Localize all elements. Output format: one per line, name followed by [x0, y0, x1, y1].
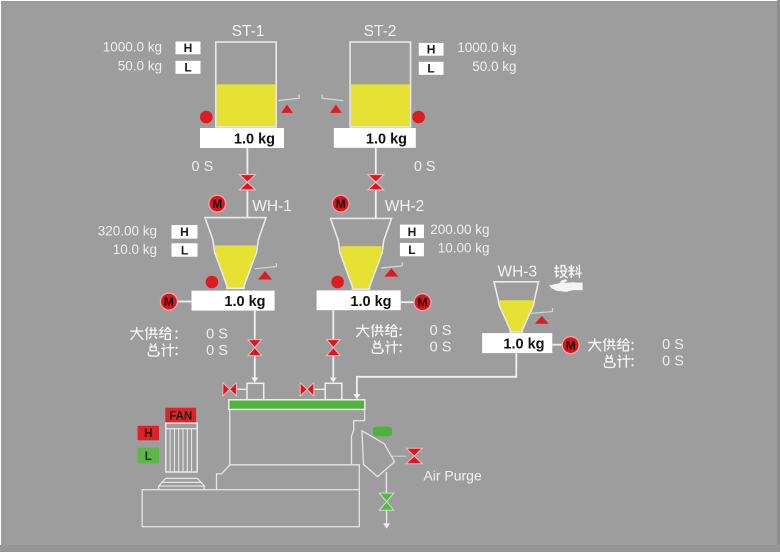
- level indicator WH-3: [531, 308, 553, 324]
- svg-text:L: L: [181, 243, 188, 257]
- pipe WH-2 discharge: [330, 310, 337, 382]
- window border right: [777, 0, 780, 552]
- svg-text:WH-3: WH-3: [497, 264, 537, 281]
- motor M WH-2 scale: [401, 294, 431, 311]
- hand pointer icon: [549, 279, 583, 292]
- base platform: [142, 490, 359, 527]
- button 投料: [555, 265, 582, 277]
- svg-text:0 S: 0 S: [192, 159, 214, 175]
- svg-text:H: H: [427, 42, 436, 56]
- tank ST-1: [216, 42, 276, 127]
- hopper WH-1 outline: [205, 218, 266, 289]
- mixer base transition right: [352, 465, 360, 490]
- svg-text:0 S: 0 S: [414, 159, 436, 175]
- motor M WH-1 top: [209, 195, 226, 212]
- label 大供给: WH-1: [131, 327, 171, 339]
- hopper WH-3 outline: [494, 282, 539, 332]
- mixer green top bar: [229, 400, 365, 410]
- level indicator WH-1: [255, 263, 276, 280]
- pipe chute down: [385, 472, 387, 493]
- svg-text:1.0 kg: 1.0 kg: [234, 131, 275, 147]
- valve WH-1 discharge: [248, 340, 262, 356]
- mixer body outline: [230, 410, 365, 465]
- window border left: [0, 0, 1, 552]
- fan base skirt: [159, 478, 204, 489]
- weight box WH-2: [317, 290, 401, 310]
- svg-text:200.00 kg: 200.00 kg: [430, 222, 489, 237]
- sensor dot WH-2: [331, 276, 344, 289]
- valve port 1 (horizontal): [223, 383, 247, 396]
- svg-text:M: M: [212, 197, 222, 211]
- pipe below green valve with arrow: [383, 510, 390, 528]
- label 总计: WH-2: [372, 341, 398, 353]
- fan H alarm box: [138, 426, 159, 441]
- svg-text:ST-1: ST-1: [232, 23, 265, 40]
- svg-text:0 S: 0 S: [206, 327, 228, 343]
- hopper WH-3 fill: [499, 300, 533, 331]
- valve ST-2 outlet: [368, 175, 384, 190]
- pipe WH-1 discharge: [251, 311, 258, 383]
- svg-text:H: H: [144, 428, 152, 440]
- svg-text:1000.0 kg: 1000.0 kg: [103, 40, 162, 55]
- discharge chute diamond: [362, 431, 395, 477]
- svg-text:M: M: [418, 296, 428, 310]
- window border top: [0, 0, 780, 1]
- weight box WH-1: [192, 291, 275, 311]
- svg-text:1.0 kg: 1.0 kg: [503, 337, 544, 353]
- svg-text:320.00 kg: 320.00 kg: [98, 223, 157, 238]
- svg-text:1.0 kg: 1.0 kg: [224, 294, 265, 310]
- pipe WH-3 discharge elbow: [353, 353, 516, 399]
- motor M WH-3 scale: [552, 337, 579, 354]
- hopper WH-2 outline: [331, 218, 392, 289]
- H setpoint box ST-1: [176, 41, 201, 55]
- label 大供给: WH-3: [589, 339, 629, 351]
- fan L alarm box: [138, 448, 159, 464]
- valve WH-2 discharge: [327, 340, 341, 356]
- port box 2 on mixer: [325, 383, 342, 399]
- motor M WH-1 scale: [160, 293, 191, 310]
- svg-text:1000.0 kg: 1000.0 kg: [457, 40, 516, 55]
- H setpoint box WH-1: [172, 225, 198, 239]
- weight box WH-3: [482, 333, 552, 353]
- sensor dot ST-1: [200, 111, 213, 124]
- svg-text:L: L: [184, 61, 191, 75]
- fan filter column: [166, 423, 197, 472]
- svg-text:L: L: [408, 243, 415, 257]
- svg-text:10.0 kg: 10.0 kg: [113, 242, 157, 257]
- L setpoint box WH-2: [400, 243, 424, 257]
- svg-text:L: L: [427, 62, 434, 76]
- H setpoint box WH-2: [400, 225, 424, 239]
- hopper WH-2 fill: [340, 246, 381, 288]
- hopper WH-1 fill: [215, 246, 256, 288]
- svg-text:WH-1: WH-1: [252, 198, 292, 215]
- H setpoint box ST-2: [419, 42, 444, 56]
- svg-text:M: M: [164, 295, 174, 309]
- pipe ST-1 to WH-1: [246, 148, 248, 218]
- label FAN box: [165, 408, 196, 423]
- mixer base transition left: [217, 465, 230, 490]
- valve purge outlet (green): [379, 493, 394, 510]
- chute indicator (green): [373, 427, 392, 436]
- svg-text:50.0 kg: 50.0 kg: [118, 59, 162, 74]
- svg-text:0 S: 0 S: [662, 337, 684, 353]
- svg-text:0 S: 0 S: [430, 339, 452, 355]
- air purge link line: [391, 455, 407, 457]
- svg-text:Air Purge: Air Purge: [423, 468, 482, 484]
- label 总计: WH-1: [148, 344, 174, 356]
- L setpoint box WH-1: [172, 243, 198, 257]
- svg-text:FAN: FAN: [169, 411, 192, 423]
- svg-text:1.0 kg: 1.0 kg: [366, 131, 407, 147]
- motor M WH-2 top: [332, 195, 349, 212]
- svg-text:H: H: [408, 225, 417, 239]
- L setpoint box ST-2: [419, 62, 444, 76]
- valve ST-1 outlet: [239, 175, 255, 190]
- svg-text:0 S: 0 S: [206, 343, 228, 359]
- sensor dot WH-1: [206, 276, 219, 289]
- svg-text:1.0 kg: 1.0 kg: [350, 294, 391, 310]
- level indicator ST-1: [278, 95, 299, 113]
- svg-text:L: L: [145, 451, 152, 463]
- label 大供给: WH-2: [357, 325, 397, 337]
- svg-text:10.00 kg: 10.00 kg: [438, 240, 490, 255]
- tank ST-2: [350, 42, 410, 127]
- window border bottom: [0, 545, 780, 552]
- svg-text:50.0 kg: 50.0 kg: [472, 59, 516, 74]
- svg-text:0 S: 0 S: [430, 323, 452, 339]
- weight box ST-2: [334, 128, 416, 148]
- valve air purge (red): [406, 448, 422, 464]
- weight box ST-1: [200, 128, 284, 148]
- svg-text:ST-2: ST-2: [364, 23, 397, 40]
- label 总计: WH-3: [604, 355, 630, 367]
- svg-text:WH-2: WH-2: [385, 198, 425, 215]
- svg-text:M: M: [336, 197, 346, 211]
- svg-text:H: H: [180, 225, 189, 239]
- level indicator WH-2: [381, 262, 402, 276]
- svg-text:H: H: [184, 41, 193, 55]
- svg-text:M: M: [566, 339, 576, 353]
- port box 1 on mixer: [247, 383, 264, 399]
- level indicator ST-2: [322, 95, 343, 113]
- sensor dot ST-2: [412, 111, 425, 124]
- pipe ST-2 to WH-2: [375, 148, 377, 219]
- valve port 2 (horizontal): [300, 383, 325, 396]
- L setpoint box ST-1: [176, 61, 201, 75]
- svg-text:0 S: 0 S: [662, 354, 684, 370]
